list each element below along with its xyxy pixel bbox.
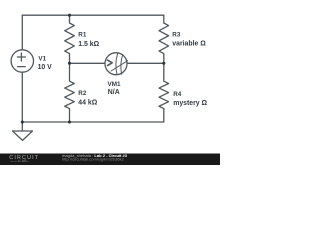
wire: middle net R1 bottom to VM1 left (70, 62, 106, 64)
resistor R2 body (65, 63, 75, 122)
resistor R4 body (159, 63, 169, 108)
svg-text:R1: R1 (78, 32, 87, 39)
wire: R4 bottom lead corner to bottom net (163, 109, 165, 123)
svg-text:R4: R4 (173, 91, 182, 98)
wire: top net from V1 top to R3 top (22, 14, 164, 16)
junction: bottom net / ground (21, 120, 24, 123)
voltmeter VM1 dial arc 1 (116, 54, 118, 74)
svg-text:variable Ω: variable Ω (172, 40, 206, 47)
wire: middle net VM1 right to R3/R4 node (127, 62, 164, 64)
svg-text:1.5 kΩ: 1.5 kΩ (78, 41, 99, 48)
junction: middle net / R3-R4 (162, 62, 165, 65)
voltmeter VM1 dial arc 2 (121, 55, 123, 74)
svg-text:mystery Ω: mystery Ω (173, 100, 207, 107)
voltmeter VM1 needle (111, 61, 128, 71)
junction: bottom net / R2 bottom (68, 120, 71, 123)
resistor R3 body (159, 23, 169, 63)
wire: R3 top lead corner from top net (163, 15, 165, 23)
resistor R1 body (65, 15, 75, 63)
svg-text:44 kΩ: 44 kΩ (78, 100, 97, 107)
voltmeter VM1 arrow glyph (108, 60, 113, 65)
voltage source V1 circle (11, 50, 33, 72)
svg-text:N/A: N/A (108, 89, 120, 96)
svg-text:——▪LAB–: ——▪LAB– (11, 159, 30, 163)
junction: middle net / R1-R2 (68, 62, 71, 65)
svg-text:R3: R3 (172, 32, 181, 39)
watermark bar (0, 154, 220, 166)
wire: bottom net from ground junction to R4 bottom (22, 121, 164, 123)
ground symbol triangle (13, 131, 33, 140)
wire: left vertical from top net down to V1 top (21, 15, 23, 50)
svg-text:R2: R2 (78, 90, 87, 97)
voltmeter VM1 circle (105, 53, 127, 75)
svg-text:V1: V1 (38, 55, 46, 62)
V1 minus sign (18, 66, 26, 68)
junction: top net / R1 top (68, 14, 71, 17)
svg-text:10 V: 10 V (38, 64, 53, 71)
svg-text:http://circuitlab.com/c/jykn92: http://circuitlab.com/c/jykn92b36k2 (62, 157, 125, 162)
wire: V1 bottom to ground junction (21, 72, 23, 131)
svg-text:VM1: VM1 (108, 81, 121, 88)
V1 plus sign (17, 53, 25, 61)
